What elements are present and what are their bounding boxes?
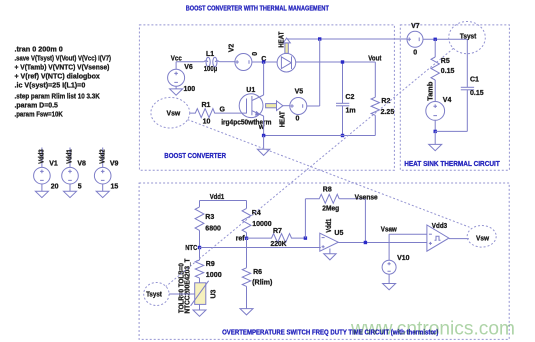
- overtemperature box: [139, 183, 509, 339]
- ground R6: [240, 309, 253, 315]
- node Tsyst (thermistor input): [144, 283, 169, 306]
- resistor R9: [195, 248, 222, 283]
- ground: [257, 136, 269, 156]
- svg-text:V4: V4: [443, 97, 452, 104]
- ground U5: [324, 249, 336, 260]
- svg-text:1000: 1000: [206, 272, 222, 279]
- svg-text:V10: V10: [397, 255, 410, 262]
- svg-text:15: 15: [111, 184, 119, 191]
- diode D1 (freewheel, in circle): [277, 53, 296, 72]
- heat arrow of U1: [266, 101, 287, 127]
- wire comparator output to Vsw: [449, 238, 469, 240]
- svg-text:C2: C2: [345, 94, 354, 101]
- svg-text:L1: L1: [206, 51, 214, 58]
- svg-text:.param Fsw=10K: .param Fsw=10K: [15, 112, 63, 119]
- wire Tsyst to thermistor: [169, 293, 195, 295]
- svg-text:10: 10: [203, 119, 211, 126]
- svg-text:R2: R2: [381, 98, 390, 105]
- junction V4 bottom: [434, 130, 437, 133]
- capacitor C2: [336, 62, 356, 136]
- svg-text:Vdd1: Vdd1: [210, 194, 225, 201]
- svg-text:0: 0: [413, 50, 417, 57]
- svg-text:Vdd1: Vdd1: [326, 219, 333, 233]
- svg-text:R1: R1: [202, 102, 211, 109]
- resistor R4: [242, 201, 272, 239]
- svg-text:BOOST CONVERTER: BOOST CONVERTER: [164, 153, 226, 160]
- annotation line Vsw: [188, 120, 470, 228]
- ground V10: [383, 284, 396, 290]
- svg-text:Tsyst: Tsyst: [460, 33, 477, 40]
- svg-text:(Rlim): (Rlim): [252, 280, 272, 287]
- voltage source V4: [426, 80, 452, 131]
- svg-text:C1: C1: [470, 76, 479, 83]
- svg-text:Vout: Vout: [368, 55, 382, 62]
- svg-text:R8: R8: [323, 187, 332, 194]
- svg-text:.step param Rlim list 10 3.3K: .step param Rlim list 10 3.3K: [15, 94, 100, 101]
- wire Vsaw to comparator: [389, 233, 427, 235]
- svg-text:2Meg: 2Meg: [322, 206, 339, 213]
- ground: [170, 89, 183, 95]
- junction C2 top: [341, 60, 344, 63]
- resistor R2: [371, 62, 394, 136]
- wire V4 to C1 bottom: [435, 130, 467, 132]
- heat arrow of diode: [278, 31, 290, 53]
- resistor R7: [247, 228, 306, 248]
- node ref: [236, 236, 249, 243]
- svg-text:20: 20: [51, 184, 59, 191]
- svg-text:Vsense: Vsense: [355, 194, 378, 201]
- svg-text:HEAT SINK THERMAL CIRCUIT: HEAT SINK THERMAL CIRCUIT: [404, 161, 500, 168]
- junction emitter rail: [262, 134, 265, 137]
- ground: [35, 191, 48, 197]
- node Vsw (output): [467, 226, 496, 248]
- svg-text:R9: R9: [206, 261, 215, 268]
- svg-text:V7: V7: [411, 23, 420, 30]
- svg-text:ref: ref: [236, 236, 246, 243]
- voltage source V7: [407, 23, 423, 57]
- heat sink box: [400, 25, 509, 170]
- svg-text:100µ: 100µ: [204, 66, 218, 73]
- voltage source V10: [382, 255, 410, 283]
- svg-text:V2: V2: [229, 44, 236, 53]
- svg-text:220K: 220K: [271, 241, 287, 248]
- junction Tsyst node: [434, 38, 437, 41]
- transistor U1 irg4pc50wtherm (IGBT): [221, 87, 271, 131]
- node Vsw (boost): [151, 97, 190, 128]
- svg-text:100: 100: [184, 86, 196, 93]
- svg-text:HEAT: HEAT: [278, 31, 285, 48]
- svg-text:1m: 1m: [346, 107, 356, 114]
- svg-text:6800: 6800: [205, 225, 221, 232]
- inductor L1: [204, 51, 220, 73]
- svg-text:Vdd3: Vdd3: [39, 149, 46, 164]
- resistor R8: [305, 187, 339, 213]
- ground: [64, 191, 77, 197]
- svg-text:Vdd2: Vdd2: [99, 149, 106, 164]
- wire Vsense down to U5 output: [364, 199, 366, 243]
- wire junction up to R8: [304, 199, 306, 238]
- voltage source V2: [229, 44, 260, 71]
- svg-text:Vsw: Vsw: [167, 111, 181, 118]
- wire ground rail: [264, 135, 376, 137]
- ground U3: [193, 304, 206, 316]
- svg-text:.param D=0.5: .param D=0.5: [15, 102, 58, 109]
- voltage source V1: [34, 148, 59, 192]
- node NTC: [185, 245, 201, 252]
- svg-text:U1: U1: [246, 87, 255, 94]
- svg-text:R3: R3: [205, 214, 214, 221]
- voltage source V5: [283, 88, 320, 122]
- svg-text:0: 0: [296, 116, 300, 123]
- svg-text:www.cntronics.com: www.cntronics.com: [350, 317, 515, 339]
- capacitor C1: [461, 39, 484, 131]
- resistor R1: [190, 102, 247, 126]
- svg-text:Tsyst: Tsyst: [146, 292, 162, 299]
- resistor R5: [431, 39, 455, 80]
- boost converter box: [139, 25, 394, 170]
- svg-text:5: 5: [78, 184, 82, 191]
- svg-text:0.15: 0.15: [441, 68, 455, 75]
- svg-text:Vsw: Vsw: [476, 236, 490, 243]
- voltage source V6: [168, 64, 196, 93]
- svg-text:+ V(Tamb) V(VNTC) V(Vsense): + V(Tamb) V(VNTC) V(Vsense): [15, 65, 110, 72]
- svg-text:R7: R7: [273, 228, 282, 235]
- svg-text:Vdd1: Vdd1: [67, 149, 74, 164]
- wire heat bus to heat sink circuit: [287, 38, 407, 40]
- wire NTC to U5 + input: [200, 247, 321, 249]
- wire U5 output to comparator: [338, 242, 427, 244]
- svg-text:2.25: 2.25: [381, 109, 395, 116]
- wire R8 to Vsense corner: [339, 198, 365, 200]
- svg-text:Vsaw: Vsaw: [381, 227, 397, 234]
- svg-text:V1: V1: [49, 161, 58, 168]
- svg-text:V5: V5: [295, 88, 304, 95]
- junction Vsense tap: [364, 241, 367, 244]
- wire V2 to node C: [252, 61, 277, 63]
- svg-text:R4: R4: [252, 210, 261, 217]
- wire V7 to Tsyst node: [423, 38, 467, 40]
- wire L1 to V2: [219, 61, 235, 63]
- svg-text:BOOST CONVERTER WITH THERMAL M: BOOST CONVERTER WITH THERMAL MANAGEMENT: [186, 5, 330, 12]
- ground: [96, 191, 109, 197]
- spice directive text block: [15, 47, 112, 119]
- svg-text:G: G: [220, 106, 226, 113]
- svg-text:U3: U3: [211, 289, 218, 298]
- svg-text:.ic V(syst)=25 I(L1)=0: .ic V(syst)=25 I(L1)=0: [15, 83, 86, 90]
- svg-text:Tamb: Tamb: [428, 82, 435, 101]
- svg-text:V8: V8: [77, 161, 86, 168]
- resistor R6: [242, 238, 272, 308]
- svg-text:0: 0: [252, 52, 259, 56]
- svg-text:U5: U5: [334, 230, 343, 237]
- junction heat bus: [318, 37, 321, 40]
- svg-text:V9: V9: [110, 161, 119, 168]
- svg-text:.tran 0 200m 0: .tran 0 200m 0: [15, 47, 63, 54]
- svg-text:R6: R6: [253, 269, 262, 276]
- voltage source V8: [62, 148, 86, 192]
- ground: [429, 131, 442, 150]
- svg-text:0.15: 0.15: [470, 90, 484, 97]
- wire Vcc to V6: [175, 62, 177, 69]
- svg-text:V6: V6: [184, 64, 193, 71]
- svg-text:Vdd3: Vdd3: [432, 223, 447, 230]
- thermistor U3: [191, 281, 218, 306]
- resistor R3: [195, 201, 221, 248]
- wire V5 to heat bus: [319, 39, 321, 106]
- annotation line Tsyst: [166, 48, 454, 286]
- op-amp U5: [320, 219, 344, 252]
- wire Vcc to L1: [176, 61, 204, 63]
- voltage source V9: [94, 148, 118, 192]
- node Vdd1 rail: [200, 194, 247, 201]
- junction R7 / R8 tap: [304, 236, 307, 239]
- wire node C down to U1 collector: [263, 62, 265, 95]
- svg-text:+ V(ref) V(NTC) dialogbox: + V(ref) V(NTC) dialogbox: [15, 74, 100, 81]
- wire Vsaw down to V10: [388, 234, 390, 260]
- svg-text:HEAT: HEAT: [280, 111, 287, 128]
- junction C2 bottom: [341, 134, 344, 137]
- wire U1 emitter down: [263, 116, 265, 136]
- comparator A1: [427, 223, 449, 251]
- svg-text:.save V(Tsyst) V(Vout) V(Vcc): .save V(Tsyst) V(Vout) V(Vcc) I(V7): [15, 56, 112, 63]
- wire diode cathode to Vout rail: [296, 61, 376, 63]
- node Tsyst (heat sink): [449, 21, 486, 53]
- svg-text:R5: R5: [441, 58, 450, 65]
- svg-text:NTC: NTC: [185, 245, 197, 252]
- svg-text:10000: 10000: [252, 221, 272, 228]
